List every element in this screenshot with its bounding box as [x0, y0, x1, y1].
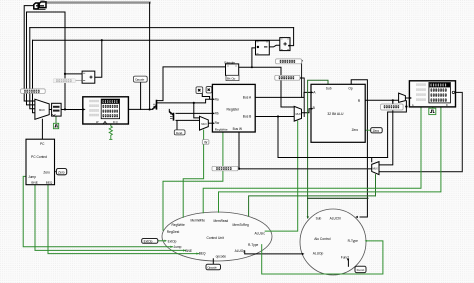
control unit labels	[167, 218, 266, 258]
svg-text:Ra: Ra	[215, 97, 219, 101]
svg-text:ALUOp: ALUOp	[313, 252, 324, 256]
svg-text:Extender: Extender	[224, 60, 235, 64]
wire: MemRead green	[219, 107, 441, 212]
junction instruction column	[149, 108, 151, 110]
svg-text:RegWrite: RegWrite	[172, 223, 185, 227]
svg-text:Zero: Zero	[43, 170, 50, 174]
wire: instruction memory output to splitter	[128, 108, 152, 110]
svg-text:Rb: Rb	[215, 111, 219, 115]
svg-text:PC: PC	[40, 142, 45, 146]
junction PC+4 line	[101, 39, 103, 41]
junction Bus W	[238, 168, 240, 170]
Bus B probe	[275, 75, 300, 80]
wire: R probe stub	[392, 100, 394, 104]
wire: ALUCtrl black vertical and hook to ALU Op	[351, 80, 367, 217]
wire: PC mux input 1	[27, 12, 35, 105]
Bus A probe	[276, 59, 302, 64]
jump concat component top left	[34, 1, 46, 10]
svg-text:D Q: D Q	[113, 120, 118, 124]
wire: PC into adder	[65, 73, 82, 75]
svg-text:PC Control: PC Control	[31, 155, 47, 159]
Bus W probe	[212, 166, 238, 171]
svg-text:Zero: Zero	[373, 129, 380, 133]
svg-text:Bit Op: Bit Op	[227, 77, 236, 81]
ROM pulldown resistor	[109, 126, 112, 139]
svg-text:RegWrite: RegWrite	[215, 127, 228, 131]
constant box pair above register file	[196, 87, 212, 94]
svg-text:ALUCtrl: ALUCtrl	[330, 217, 341, 221]
wire: opcode tunnel stub down to instruction	[140, 82, 142, 109]
wire: Bus A probe stub	[301, 61, 303, 98]
junction Bus B probe	[299, 77, 301, 79]
wire: immediate to shift box	[252, 48, 256, 67]
extender	[226, 64, 240, 81]
wire: Bus W vertical	[238, 132, 240, 169]
wire: Rw mux output to Rw	[208, 122, 212, 124]
svg-text:ALUsrc: ALUsrc	[255, 232, 266, 236]
wire: Bus B junction down to memory data line	[277, 117, 279, 158]
wire: branch target horizontal y=27.6	[30, 27, 294, 29]
wire: Rd field to Rw mux lower input	[176, 119, 200, 121]
junction Rt line	[193, 102, 195, 104]
R result probe	[381, 104, 404, 110]
wire: Rb field line	[176, 112, 212, 114]
wire: ALU result down to result mux	[379, 100, 393, 165]
wire: funct tunnel stub	[176, 121, 178, 130]
alu control labels	[313, 217, 358, 260]
wire: RAM clock stub	[432, 107, 434, 108]
Rw mux M2	[200, 116, 209, 130]
wire: ALU result R to address mux	[365, 99, 398, 101]
svg-text:Zero: Zero	[58, 170, 65, 174]
svg-text:Sub: Sub	[326, 86, 332, 90]
svg-text:ExtOp: ExtOp	[168, 239, 177, 243]
svg-text:opcode: opcode	[216, 255, 227, 259]
PC register	[52, 103, 62, 116]
svg-text:ALUOp: ALUOp	[235, 249, 246, 253]
wire: gray floating bus from top adder to instruction column	[46, 1, 150, 3]
wire: Sub control dark green vertical and hook to ALU	[308, 80, 328, 218]
wire: RegWrite green	[163, 132, 223, 230]
wire: MemWrite green	[203, 107, 421, 213]
Opcode tunnel at control	[206, 264, 221, 270]
wire: PC mux input 0 from top component	[24, 6, 35, 101]
svg-text:Opcode: Opcode	[135, 78, 145, 82]
wire: probe attach vertical right of R probe	[388, 101, 407, 158]
wire: ALUSrc select green	[265, 121, 298, 231]
wire: result mux output to Bus W	[239, 168, 372, 170]
gray constant probe	[53, 79, 75, 83]
wire: branch adder output up to branch line	[290, 28, 294, 46]
data memory RAM	[409, 81, 455, 107]
W probe on select wire	[202, 140, 209, 145]
PC Control box U5	[26, 139, 55, 185]
junction Bus A probe	[301, 60, 303, 62]
wire: extender output to ALUSrc mux	[239, 67, 295, 107]
svg-text:Funct: Funct	[176, 131, 182, 135]
junction R probe attach	[405, 105, 407, 107]
svg-text:Bus A: Bus A	[243, 96, 252, 100]
pin entry arrows on control unit	[165, 240, 199, 255]
svg-text:32 Bit ALU: 32 Bit ALU	[327, 112, 344, 116]
RAM clock component	[429, 108, 436, 114]
PC probe label	[21, 89, 46, 93]
svg-text:MUX: MUX	[39, 108, 45, 112]
svg-text:Alu Control: Alu Control	[314, 237, 331, 241]
svg-text:Jump: Jump	[174, 245, 182, 249]
wire: ROM pulldown stub	[110, 124, 112, 126]
svg-text:Register: Register	[227, 108, 240, 112]
svg-text:MemToReg: MemToReg	[233, 223, 250, 227]
svg-text:Zero: Zero	[352, 128, 359, 132]
svg-text:Sub: Sub	[316, 217, 322, 221]
alu control circle U3	[300, 209, 366, 275]
junction PC output	[64, 108, 66, 110]
svg-text:RegDest: RegDest	[167, 230, 180, 234]
svg-text:Bus B: Bus B	[243, 115, 252, 119]
svg-text:BNE: BNE	[31, 181, 37, 185]
svg-text:R-Type: R-Type	[348, 239, 359, 243]
control unit ellipse U2	[162, 212, 272, 261]
wire: MemToReg green	[249, 196, 376, 216]
PC+4 adder A1	[82, 71, 95, 83]
splitter S1	[152, 100, 156, 110]
wire: Bus B probe stub	[300, 78, 304, 117]
wire: PC mux input 2	[30, 28, 35, 109]
shift left box	[256, 41, 270, 55]
Zero tunnel at PC Control	[56, 169, 66, 175]
wire: PC loop horizontal y=12	[27, 11, 66, 13]
junction R line	[392, 99, 394, 101]
wire: result mux top stub	[371, 158, 373, 162]
wire: splitter2 input stub	[168, 109, 170, 111]
wire: RegDest select green	[183, 130, 203, 217]
svg-text:MUX: MUX	[296, 113, 302, 116]
RAM address mux M4	[399, 93, 406, 102]
pin entry arrows on alu control	[302, 216, 367, 261]
svg-text:Jump: Jump	[28, 175, 36, 179]
wire: PC+4 horizontal y=40.2	[33, 39, 281, 41]
svg-text:MUX: MUX	[201, 123, 207, 126]
result mux M5 (MemToReg)	[372, 162, 379, 175]
svg-text:D: D	[446, 104, 448, 107]
svg-text:BEQ: BEQ	[46, 181, 53, 185]
svg-text:Rw: Rw	[215, 121, 220, 125]
svg-text:Control Unit: Control Unit	[207, 236, 224, 240]
instruction memory ROM	[83, 97, 129, 124]
wire: Ra field line	[157, 99, 213, 103]
wire: RAM output loop	[379, 92, 462, 171]
junction immediate shift tap	[251, 66, 253, 68]
wire: immediate field up to extender	[157, 67, 226, 101]
register file U1	[212, 84, 255, 132]
opcode tunnel label	[133, 76, 147, 82]
wire: gray probe stub to adder	[75, 79, 82, 81]
svg-text:MemWrite: MemWrite	[191, 218, 206, 222]
svg-text:MUX: MUX	[373, 169, 379, 171]
svg-text:BNE: BNE	[185, 249, 192, 253]
svg-text:Opcode: Opcode	[207, 266, 217, 270]
ExtOp tunnel	[142, 239, 158, 244]
32 bit ALU U4	[311, 84, 365, 142]
svg-text:R-Type: R-Type	[248, 243, 259, 247]
branch adder A2	[280, 38, 290, 51]
wire: shift box output jog to branch adder	[269, 45, 280, 47]
svg-text:MemRead: MemRead	[214, 219, 229, 223]
clock component below PC register	[53, 123, 58, 128]
wire: Rt field down to Rw mux	[194, 103, 200, 118]
wire: PC register output to instruction memory	[61, 109, 83, 111]
wire: PC feedback vertical x=65	[64, 12, 66, 109]
Funct tunnel at alu control	[355, 266, 366, 272]
wire: Bus A to ALU A	[255, 92, 311, 97]
Funct tunnel near splitter	[174, 130, 185, 135]
svg-text:BEQ: BEQ	[199, 252, 206, 256]
wire: constant box jog to Ra area	[202, 94, 209, 100]
wire: Jump control line	[23, 176, 173, 246]
junction PC adder input	[64, 73, 66, 75]
wire: ALUSrc mux output to ALU B	[302, 109, 312, 113]
wire: ExtOp green stub	[158, 240, 165, 242]
wire: clock stub to PC register	[55, 116, 57, 123]
PC mux M1	[35, 99, 49, 119]
svg-text:ExtOp: ExtOp	[144, 240, 153, 244]
splitter S2	[169, 112, 173, 121]
wire: opcode stub down to tunnel	[212, 259, 214, 264]
svg-text:Funct: Funct	[357, 268, 365, 272]
wire: address mux output to RAM	[405, 97, 409, 99]
junction Bus B down	[277, 115, 279, 117]
wire: PC mux input 3	[33, 40, 35, 113]
Zero tunnel at ALU	[371, 128, 383, 133]
wire: Zero tunnel stub at PC Control	[55, 171, 57, 173]
wire: Zero green stub at ALU	[365, 129, 371, 131]
wire: Bus B to ALUSrc mux	[255, 116, 294, 118]
ALUSrc mux M3	[294, 106, 301, 121]
wire: adder output up to PC+4 line	[95, 40, 102, 77]
wire: vertical from gray bus down to instruction line	[149, 3, 151, 110]
wire: BEQ control line	[48, 185, 199, 254]
wire: ALUOp black from control to alu control	[245, 251, 302, 254]
wire: R-Type green loop	[262, 241, 383, 274]
wire: memory write data long horizontal	[278, 157, 388, 159]
svg-text:Bus W: Bus W	[233, 127, 242, 131]
wire: PC mux output to PC register	[49, 109, 51, 111]
wire: Funct tunnel stub at alu control	[347, 260, 349, 267]
svg-text:W: W	[204, 141, 207, 145]
wire: result mux select down	[375, 175, 377, 196]
wire: BNE control line	[35, 185, 185, 251]
wire: dark control horizontal Sub-ALUCtrl	[308, 197, 368, 199]
wire: PC mux select down to PC Control	[41, 119, 43, 139]
svg-text:Op: Op	[348, 86, 352, 90]
